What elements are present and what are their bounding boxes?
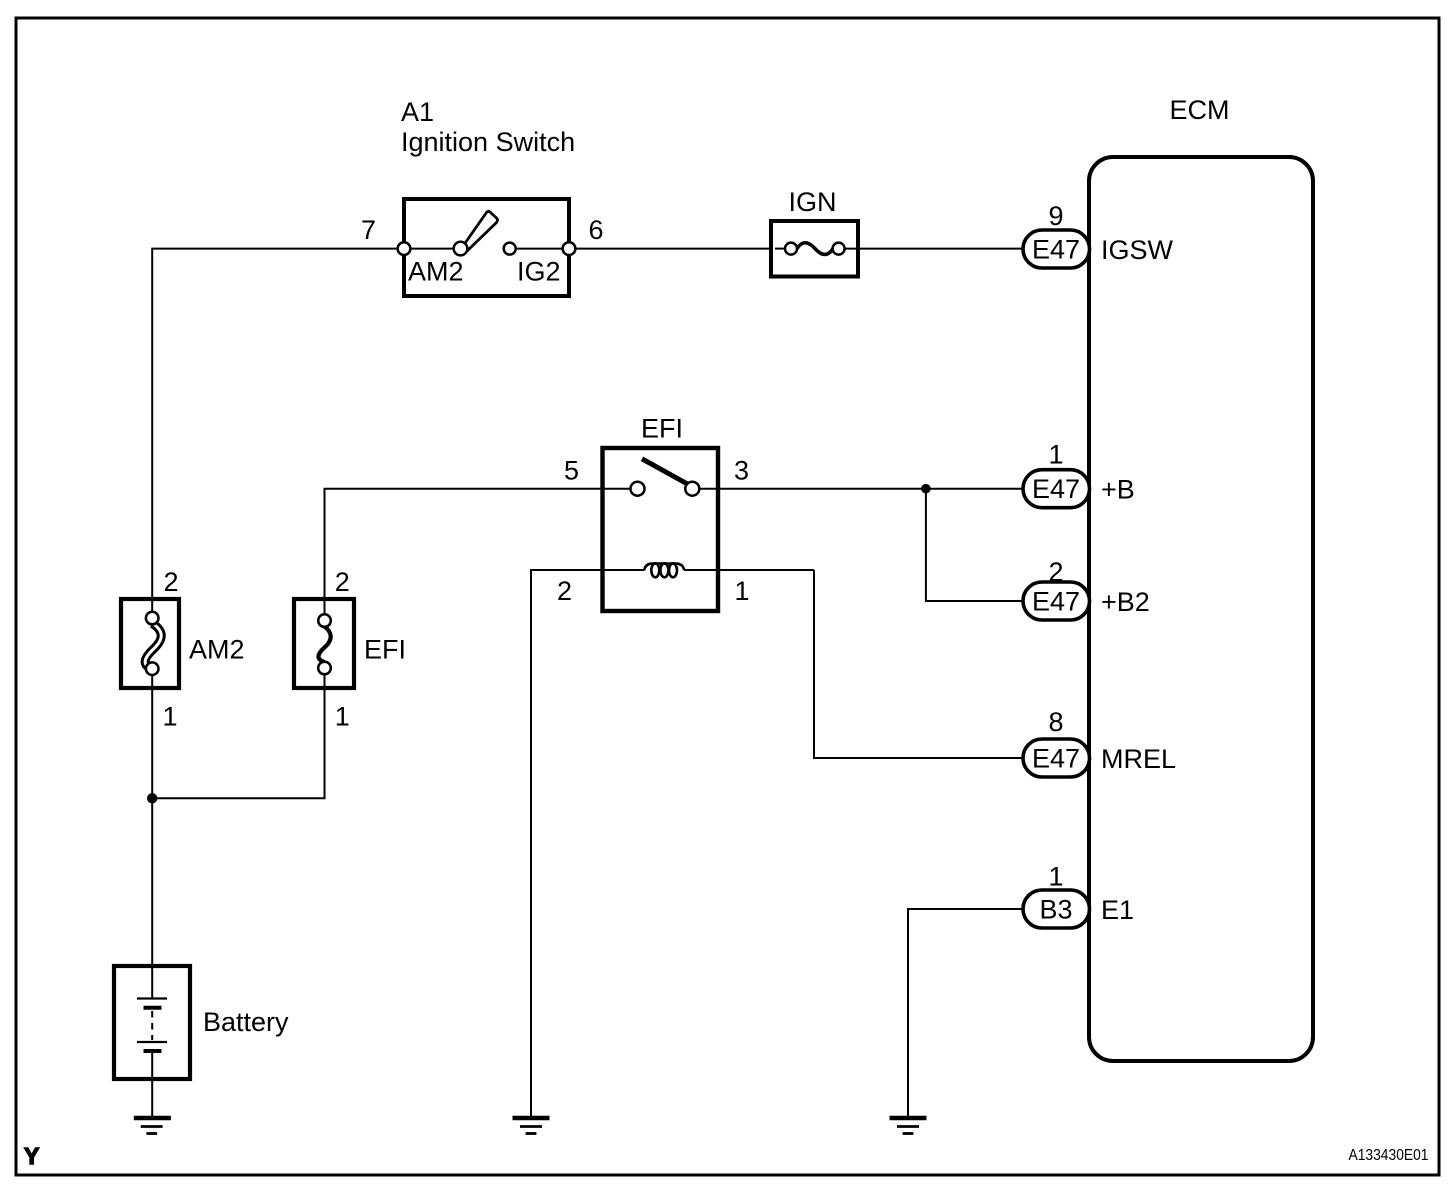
svg-text:MREL: MREL: [1101, 744, 1176, 774]
ignition switch AM2 contact circle: [454, 242, 468, 256]
wire: EFI relay coil pin2 to ground: [531, 570, 645, 1116]
svg-text:6: 6: [589, 215, 604, 245]
relay EFI box: [603, 448, 719, 611]
connector E47 pin 8 MREL: [1023, 707, 1176, 777]
wire: junction to EFI fuse bottom: [152, 688, 324, 798]
wire: AM2 fuse bottom to battery top: [151, 688, 153, 966]
wire: ECM E1 to ground: [908, 909, 1023, 1116]
svg-text:1: 1: [1048, 440, 1063, 470]
svg-text:Ignition Switch: Ignition Switch: [401, 127, 575, 157]
wire: EFI relay coil to pin1: [684, 569, 814, 571]
ignition switch terminal 6 circle: [563, 242, 576, 255]
svg-text:IGN: IGN: [788, 187, 836, 217]
fusible link AM2 box: [121, 599, 179, 688]
connector E47 pin 2 +B2: [1023, 557, 1150, 620]
pin 6 label: [589, 215, 604, 245]
fusible link AM2 pin 2 label: [164, 567, 179, 597]
connector E47 pin 9 IGSW: [1023, 201, 1174, 268]
svg-text:7: 7: [361, 215, 376, 245]
ground E1: [890, 1118, 927, 1134]
relay EFI coil: [644, 563, 684, 577]
svg-text:1: 1: [1048, 862, 1063, 892]
svg-text:E1: E1: [1101, 895, 1134, 925]
terminal AM2 label: [408, 257, 464, 287]
ignition switch IG2 contact circle: [504, 243, 516, 255]
svg-text:IG2: IG2: [517, 257, 561, 287]
node: junction dot battery/EFI branch: [147, 793, 157, 803]
ignition switch terminal 7 circle: [398, 242, 411, 255]
fuse EFI element: [318, 599, 331, 688]
relay pin 5 label: [564, 456, 579, 486]
ignition switch internal wires: [404, 248, 569, 250]
wire: EFI fuse top to EFI relay pin 5: [325, 489, 631, 599]
svg-text:IGSW: IGSW: [1101, 235, 1174, 265]
pin 7 label: [361, 215, 376, 245]
svg-text:2: 2: [164, 567, 179, 597]
svg-text:A1: A1: [401, 97, 434, 127]
ignition switch lever: [462, 211, 498, 252]
ground relay coil: [513, 1118, 550, 1134]
terminal IG2 label: [517, 257, 561, 287]
battery box: [114, 966, 190, 1079]
svg-text:1: 1: [163, 702, 178, 732]
svg-text:1: 1: [735, 576, 750, 606]
svg-text:9: 9: [1048, 201, 1063, 231]
IGN fuse label: [788, 187, 836, 217]
fusible link AM2 element: [145, 599, 161, 688]
wire: EFI relay pin 3 to ECM +B: [699, 488, 1023, 490]
svg-text:EFI: EFI: [641, 414, 683, 444]
fuse EFI pin 2 label: [335, 567, 350, 597]
svg-text:E47: E47: [1032, 744, 1080, 774]
relay pin 3 label: [734, 456, 749, 486]
ECM box: [1089, 157, 1313, 1061]
relay EFI contact circle pin 3: [685, 482, 699, 496]
svg-text:B3: B3: [1039, 895, 1072, 925]
wire: battery negative to ground: [151, 1079, 153, 1117]
wire: junction to ECM +B2: [926, 489, 1023, 601]
ignition switch box: [404, 199, 569, 296]
node: junction dot +B/+B2 branch: [921, 484, 931, 494]
drawing number A133430E01: [1349, 1147, 1429, 1164]
fuse EFI name: [364, 635, 406, 665]
svg-text:Battery: Battery: [203, 1007, 289, 1037]
fuse EFI pin 1 label: [335, 702, 350, 732]
svg-text:+B: +B: [1101, 475, 1135, 505]
relay pin 1 label: [735, 576, 750, 606]
ground battery: [134, 1118, 171, 1134]
fuse IGN box: [771, 221, 858, 277]
svg-text:E47: E47: [1032, 235, 1080, 265]
svg-text:+B2: +B2: [1101, 587, 1150, 617]
sheet code Y: [24, 1143, 39, 1169]
svg-text:Y: Y: [24, 1143, 39, 1169]
wire: battery positive vertical to ignition switch pin 7 horizontal: [152, 249, 404, 599]
svg-text:3: 3: [734, 456, 749, 486]
svg-text:2: 2: [335, 567, 350, 597]
relay EFI contact blade: [642, 459, 688, 484]
fuse EFI box: [294, 599, 354, 688]
connector E47 pin 1 +B: [1023, 440, 1135, 508]
fusible link AM2 name: [189, 635, 245, 665]
svg-text:E47: E47: [1032, 474, 1080, 504]
wire: EFI relay pin 1 to ECM MREL: [814, 570, 1023, 758]
battery cells: [137, 966, 167, 1079]
svg-text:1: 1: [335, 702, 350, 732]
svg-text:8: 8: [1048, 707, 1063, 737]
svg-text:AM2: AM2: [408, 257, 464, 287]
svg-text:E47: E47: [1032, 587, 1080, 617]
relay EFI contact circle pin 5: [631, 482, 645, 496]
svg-text:EFI: EFI: [364, 635, 406, 665]
battery name: [203, 1007, 289, 1037]
ECM label: [1170, 95, 1230, 125]
connector B3 pin 1 E1: [1023, 862, 1134, 929]
svg-text:A133430E01: A133430E01: [1349, 1147, 1429, 1164]
svg-text:ECM: ECM: [1170, 95, 1230, 125]
svg-text:2: 2: [557, 576, 572, 606]
fusible link AM2 pin 1 label: [163, 702, 178, 732]
svg-text:5: 5: [564, 456, 579, 486]
wire: ignition switch pin6 to IGN fuse to ECM IGSW: [569, 248, 1023, 250]
fuse IGN element: [775, 243, 856, 255]
ignition switch A1 label: [401, 97, 575, 157]
relay pin 2 label: [557, 576, 572, 606]
relay EFI name: [641, 414, 683, 444]
svg-text:AM2: AM2: [189, 635, 245, 665]
